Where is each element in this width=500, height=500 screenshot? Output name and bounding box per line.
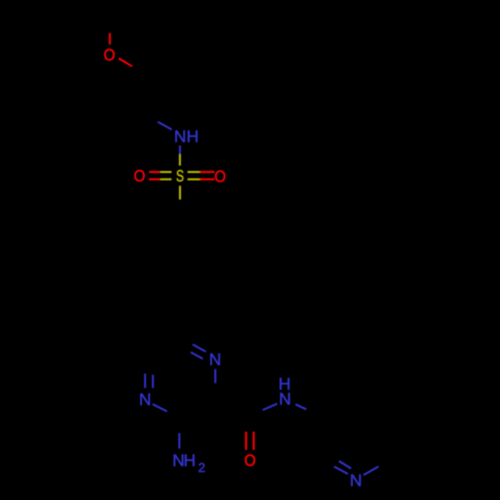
svg-text:2: 2	[198, 460, 205, 475]
svg-text:N: N	[279, 389, 291, 408]
svg-text:S: S	[176, 166, 184, 185]
svg-text:N: N	[139, 390, 151, 409]
svg-text:N: N	[209, 350, 221, 369]
svg-text:O: O	[214, 167, 226, 186]
svg-text:O: O	[244, 451, 256, 470]
svg-text:O: O	[104, 46, 116, 65]
svg-text:H: H	[184, 451, 196, 470]
svg-text:N: N	[350, 471, 362, 490]
svg-text:H: H	[187, 127, 199, 146]
svg-text:O: O	[134, 167, 146, 186]
svg-text:N: N	[174, 127, 186, 146]
